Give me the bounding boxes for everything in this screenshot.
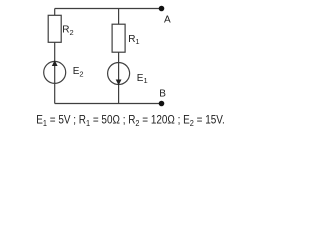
- arrow of E1 (points down): [116, 80, 122, 86]
- node A terminal dot: [159, 6, 165, 12]
- wire left branch R2 to bottom rail: [54, 42, 56, 103]
- svg-text:E1 = 5V ; R1 = 50Ω ; R2 = 120Ω: E1 = 5V ; R1 = 50Ω ; R2 = 120Ω ; E2 = 15…: [36, 115, 225, 128]
- svg-text:R2: R2: [62, 25, 73, 37]
- source E1: [108, 63, 130, 85]
- wire top rail: [55, 8, 162, 10]
- arrow of E2 (points up): [52, 60, 58, 66]
- wire middle branch stub above R1: [118, 9, 120, 25]
- wire bottom rail: [55, 103, 162, 105]
- source E2: [44, 61, 66, 83]
- svg-text:E2: E2: [73, 66, 84, 78]
- resistor R1: [112, 24, 125, 52]
- resistor R2: [48, 15, 61, 42]
- wire left branch stub above R2: [54, 9, 56, 16]
- svg-text:E1: E1: [137, 73, 148, 85]
- svg-text:A: A: [164, 14, 171, 25]
- node B terminal dot: [159, 101, 165, 107]
- wire middle branch R1 to bottom rail: [118, 52, 120, 103]
- svg-text:B: B: [159, 89, 166, 100]
- svg-text:R1: R1: [128, 34, 139, 46]
